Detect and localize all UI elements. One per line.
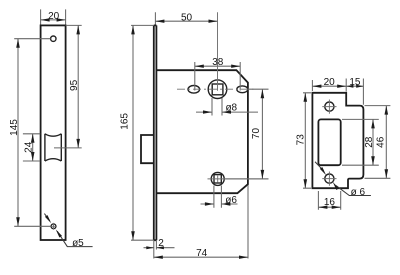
- left oval hole: [188, 86, 200, 94]
- svg-text:95: 95: [69, 79, 80, 91]
- latch cutout: [318, 119, 340, 165]
- dimension 2 (faceplate thickness): [144, 238, 175, 249]
- lock body outline: [156, 70, 248, 193]
- faceplate side (thin strip): [154, 25, 157, 240]
- dimension 74 (total depth): [154, 185, 248, 259]
- svg-text:16: 16: [324, 197, 336, 208]
- dimension 95 (top edge to latch center): [54, 25, 82, 147]
- svg-text:20: 20: [48, 11, 60, 22]
- svg-text:2: 2: [158, 238, 164, 249]
- svg-text:ø 6: ø 6: [351, 187, 366, 198]
- svg-text:ø5: ø5: [72, 238, 84, 249]
- svg-text:ø8: ø8: [225, 102, 237, 113]
- dimension 50 (backset): [155, 12, 217, 24]
- lower square hole with circle: [211, 172, 224, 185]
- right oval hole: [237, 86, 248, 93]
- svg-text:28: 28: [364, 136, 375, 148]
- dimension 24 (latch height): [23, 134, 40, 161]
- svg-text:70: 70: [251, 128, 262, 140]
- dimension 20 (faceplate width): [41, 9, 66, 24]
- latch bolt front (spool): [45, 134, 61, 161]
- faceplate front outline: [41, 25, 66, 240]
- dimension diameter 8: [196, 98, 258, 116]
- svg-text:20: 20: [324, 77, 336, 88]
- dimension 20 (strike): [312, 77, 346, 91]
- strike plate outline: [312, 93, 363, 188]
- svg-text:46: 46: [376, 136, 387, 148]
- dimension 46 (tab height): [365, 106, 391, 179]
- dimension 38: [195, 57, 240, 90]
- strike top hole with cross: [322, 100, 336, 114]
- svg-text:74: 74: [196, 248, 208, 259]
- vertical centerline spindle: [217, 12, 219, 91]
- top screw hole: [51, 36, 56, 41]
- dimension 73 (strike height): [296, 93, 311, 188]
- dimension 145 (hole spacing): [9, 39, 51, 227]
- spindle hole: circle and square 8mm: [208, 80, 227, 99]
- svg-text:50: 50: [181, 12, 193, 23]
- svg-text:ø6: ø6: [225, 195, 237, 206]
- svg-text:165: 165: [120, 113, 131, 130]
- leader diameter 5 (bottom hole): [44, 214, 92, 249]
- svg-text:145: 145: [9, 119, 20, 136]
- horizontal centerline lower hole: [208, 178, 269, 180]
- dimension 15 (strike tab): [346, 77, 363, 105]
- dimension 165 (faceplate height): [120, 25, 154, 240]
- strike bottom hole with cross: [322, 172, 336, 186]
- latch bolt protruding: [141, 135, 154, 163]
- svg-text:73: 73: [296, 134, 307, 146]
- bottom screw hole with cross: [50, 223, 57, 230]
- leader diameter 6 (strike hole): [315, 162, 371, 198]
- svg-text:15: 15: [349, 77, 361, 88]
- dimension 70 (hole spacing vertical): [225, 89, 269, 179]
- svg-text:24: 24: [24, 141, 35, 153]
- dimension diameter 6 (lower hole): [201, 186, 238, 208]
- dimension 28 (cutout height): [342, 119, 379, 165]
- dimension 16 (cutout width): [318, 191, 340, 210]
- svg-text:38: 38: [212, 57, 224, 68]
- horizontal centerline upper holes (dash-dot): [177, 88, 254, 90]
